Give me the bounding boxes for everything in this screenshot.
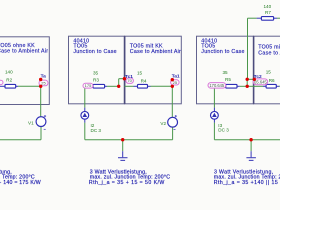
svg-text:Rth_j_a = 35 + 140 = 175 K/W: Rth_j_a = 35 + 140 = 175 K/W bbox=[0, 180, 41, 186]
svg-text:R5: R5 bbox=[225, 77, 231, 82]
svg-text:35: 35 bbox=[223, 70, 229, 75]
svg-text:DC 3: DC 3 bbox=[218, 128, 229, 133]
svg-text:175: 175 bbox=[85, 83, 92, 88]
svg-text:Ta1: Ta1 bbox=[172, 73, 180, 79]
svg-text:25: 25 bbox=[41, 80, 46, 85]
svg-text:Case to Ambient Air: Case to Ambient Air bbox=[0, 48, 48, 54]
svg-text:TO05 mit KK: TO05 mit KK bbox=[258, 45, 280, 51]
svg-text:Case to Ambient Air: Case to Ambient Air bbox=[258, 51, 280, 57]
svg-text:V2: V2 bbox=[160, 121, 166, 126]
svg-text:V1: V1 bbox=[28, 121, 34, 126]
svg-text:Tc1: Tc1 bbox=[125, 74, 133, 80]
svg-text:R6: R6 bbox=[269, 78, 275, 83]
svg-text:170.645: 170.645 bbox=[209, 83, 225, 88]
svg-text:15: 15 bbox=[137, 71, 143, 76]
svg-text:Rth_j_a = 35 + 15 = 50 K/W: Rth_j_a = 35 + 15 = 50 K/W bbox=[89, 180, 165, 186]
svg-text:65.645: 65.645 bbox=[254, 79, 267, 84]
svg-text:35: 35 bbox=[93, 70, 99, 75]
svg-text:R4: R4 bbox=[141, 79, 147, 84]
svg-text:Junction to Case: Junction to Case bbox=[73, 49, 116, 55]
svg-text:R7: R7 bbox=[265, 10, 271, 15]
svg-text:Case to Ambient Air: Case to Ambient Air bbox=[130, 49, 181, 55]
svg-text:Tc2: Tc2 bbox=[254, 74, 262, 80]
svg-text:Junction to Case: Junction to Case bbox=[201, 49, 244, 55]
svg-text:Rth_j_a = 35 +140 || 15 = 48,5: Rth_j_a = 35 +140 || 15 = 48,5 K/W bbox=[214, 180, 280, 186]
svg-text:R3: R3 bbox=[93, 78, 99, 83]
svg-text:140: 140 bbox=[5, 69, 13, 74]
svg-text:15: 15 bbox=[266, 70, 272, 75]
svg-text:R2: R2 bbox=[6, 78, 12, 83]
svg-text:140: 140 bbox=[264, 4, 272, 9]
svg-text:DC 3: DC 3 bbox=[91, 128, 102, 133]
svg-text:Ta: Ta bbox=[41, 73, 47, 79]
